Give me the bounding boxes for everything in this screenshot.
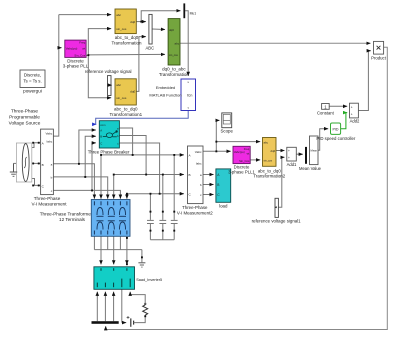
wire: Mux to Embedded MATLAB Function [185, 11, 188, 76]
svg-text:sin_cos: sin_cos [116, 27, 127, 31]
svg-text:Three-Phase: Three-Phase [11, 109, 38, 114]
ground G2 (transformer neutral) [138, 256, 145, 267]
resistor R (zigzag) [143, 305, 148, 315]
svg-text:Three-Phase Transformer: Three-Phase Transformer [40, 211, 93, 216]
block inverter (universal bridge) [94, 267, 162, 290]
svg-text:Programmable: Programmable [9, 115, 40, 120]
svg-text:Three Phase Breaker: Three Phase Breaker [88, 149, 130, 154]
block reference voltage signal source [85, 69, 132, 96]
node squares source wires [32, 142, 40, 187]
block Three Phase Breaker [88, 121, 130, 155]
wire: Vabc measurement net to PLL and abc_to_dq0 [53, 15, 111, 137]
Mux block (top) [183, 3, 196, 18]
wire: V-I Measurement2 Vabc to PLL1, Transformation2, Scope [203, 120, 260, 151]
svg-text:A: A [100, 128, 102, 132]
wire: reference voltage signal1 to Add1 [278, 157, 284, 207]
wire: transformer outputs to inverter [101, 236, 127, 264]
wire: fcn output to breaker com (blue) [96, 111, 189, 125]
svg-text:Discrete,: Discrete, [24, 73, 41, 78]
wire: V-I Measurement2 b to load B [203, 184, 214, 186]
svg-text:Three-Phase: Three-Phase [182, 205, 208, 210]
svg-text:+: + [288, 149, 290, 153]
block Three-Phase V-I Measurement2 [177, 146, 213, 215]
junction node dq0 [140, 21, 142, 23]
wire: net C (breaker c to V-I Measurement2 C and transformer port6) [119, 143, 183, 199]
wire: PID to Add2 (green) [341, 113, 348, 129]
svg-text:12 Terminals: 12 Terminals [59, 217, 86, 222]
svg-text:dq0: dq0 [169, 28, 174, 32]
svg-text:sin_cos: sin_cos [264, 160, 273, 163]
svg-text:Mean Value: Mean Value [299, 166, 322, 171]
wire: transformer secondary returns to ground [94, 236, 141, 262]
wire: source output B [32, 162, 40, 164]
svg-text:dq0: dq0 [271, 149, 276, 153]
source block (Three-Phase Programmable Voltage Source) [16, 143, 31, 182]
svg-text:abc: abc [116, 83, 121, 87]
wire: Sin_Cos net from PLL [86, 29, 165, 98]
svg-text:Iabc: Iabc [196, 162, 202, 166]
block Product [371, 41, 387, 60]
junction node Sin_Cos [87, 54, 89, 56]
wire: bus bar to inverter phase a [96, 292, 98, 322]
op block: Three-Phase V-I Measurement [32, 129, 68, 207]
wire: Add2 to Product [358, 51, 370, 111]
svg-text:wt: wt [247, 152, 250, 156]
svg-text:sin_cos: sin_cos [169, 53, 178, 57]
svg-text:PID: PID [333, 127, 339, 131]
svg-text:Freq: Freq [79, 41, 85, 45]
block ABC selector [145, 14, 154, 50]
op-amp: Discrete 3-phase PLL1 [228, 146, 255, 174]
svg-text:wt: wt [82, 46, 85, 50]
svg-text:Vabc(pu): Vabc(pu) [66, 46, 78, 50]
svg-text:com: com [100, 123, 106, 127]
block Constant [317, 104, 335, 116]
bus bar node [92, 321, 119, 324]
svg-text:+: + [288, 156, 290, 160]
capacitor Ca branch on net C [147, 194, 154, 240]
wire: net a (V-I Measurement a to breaker A and transformer port1) [53, 130, 96, 199]
wire: V-I Measurement2 a to load A [203, 174, 214, 176]
battery DC source [127, 316, 134, 327]
wire: bus bar to inverter phase c [113, 292, 115, 322]
wire: net b (V-I Measurement b to breaker B and transformer port3) [53, 136, 107, 199]
block Add2 [350, 103, 361, 124]
svg-text:Embedded: Embedded [156, 85, 175, 90]
svg-text:abc_to_dq0: abc_to_dq0 [114, 107, 138, 112]
svg-text:load: load [219, 204, 228, 209]
block load [216, 169, 231, 209]
svg-text:Iabc: Iabc [46, 140, 52, 144]
svg-text:Add1: Add1 [287, 162, 297, 167]
wire: dq0_to_abc abc long wire to Product [180, 42, 371, 44]
svg-text:Voltage Source: Voltage Source [9, 121, 41, 126]
wire: source output C [32, 179, 40, 186]
svg-text:Sin_Cos: Sin_Cos [239, 159, 250, 163]
wire: capacitor bottom rail [150, 239, 174, 241]
svg-text:MATLAB Function: MATLAB Function [149, 93, 181, 98]
ground G1 (source neutral) [10, 163, 17, 176]
svg-text:Product: Product [371, 55, 387, 60]
svg-text:reference voltage signal1: reference voltage signal1 [252, 218, 302, 223]
wire: ground1 to source [14, 162, 18, 164]
svg-text:+: + [351, 112, 353, 116]
svg-text:3-phase PLL1: 3-phase PLL1 [228, 169, 255, 174]
wire: inverter +dc to battery [122, 289, 126, 322]
svg-text:Sin_Cos: Sin_Cos [74, 53, 85, 57]
svg-text:a: a [200, 173, 202, 177]
svg-text:V-I Measurement2: V-I Measurement2 [177, 210, 213, 215]
block abc_to_dq0 Transformation [111, 9, 142, 45]
svg-text:B: B [42, 163, 44, 167]
svg-text:dq0: dq0 [130, 20, 135, 24]
block Add1 [287, 147, 297, 167]
block Embedded MATLAB Function [149, 79, 195, 111]
svg-text:Three-Phase: Three-Phase [34, 196, 61, 201]
block abc_to_dq0 Transformation1 [109, 79, 142, 117]
svg-text:abc: abc [175, 42, 180, 46]
svg-text:Transformation1: Transformation1 [109, 112, 142, 117]
block dq0_to_abc Transformation [159, 19, 190, 77]
svg-text:b: b [200, 183, 202, 187]
svg-text:ABC: ABC [145, 46, 154, 51]
wire: net c (V-I Measurement c to breaker C and transformer port5) [53, 143, 120, 199]
svg-text:B: B [100, 134, 102, 138]
svg-text:abc: abc [264, 140, 269, 144]
svg-text:Saad_Inverter5: Saad_Inverter5 [136, 278, 162, 282]
svg-text:Transformation: Transformation [159, 72, 190, 77]
svg-text:fcn: fcn [187, 93, 192, 98]
wire: Mean Value to PID [318, 129, 328, 151]
block Three-Phase Transformer 12 Terminals [40, 200, 130, 237]
powergui block [20, 70, 45, 94]
svg-text:Discrete: Discrete [67, 58, 84, 63]
wire: V-I Measurement2 c to load C [203, 194, 214, 196]
block Scope [220, 113, 233, 133]
wire: abc_to_dq0 Transformation1 dq0 up to ABC [136, 37, 146, 92]
wire: net A (breaker a to V-I Measurement2 A and transformer port2) [101, 128, 184, 199]
svg-text:Transformation2: Transformation2 [253, 173, 285, 178]
svg-text:Vabc: Vabc [195, 150, 202, 154]
op-amp: Discrete 3-phase PLL [63, 40, 89, 69]
svg-text:Add2: Add2 [350, 119, 360, 124]
wire: Constant to Add2 [329, 105, 347, 107]
svg-text:Ts = Ts s.: Ts = Ts s. [23, 79, 41, 84]
junction node Vabc/PLL [58, 47, 60, 49]
capacitor Cc branch on net A [171, 155, 178, 240]
wire: bus bar to inverter phase b [104, 292, 106, 322]
block Mean Value (with input mux bar) [299, 136, 322, 171]
block PID speed controller [316, 123, 355, 141]
svg-text:Vabc: Vabc [45, 132, 52, 136]
svg-text:a: a [51, 162, 53, 166]
svg-text:b: b [51, 176, 53, 180]
svg-text:dq0_to_abc: dq0_to_abc [162, 67, 186, 72]
wire: source output A [32, 143, 40, 148]
svg-text:abc: abc [116, 13, 121, 17]
svg-text:Transformation: Transformation [111, 40, 142, 45]
svg-text:+: + [351, 105, 353, 109]
block reference voltage signal1 source [252, 198, 302, 223]
svg-text:reference voltage signal: reference voltage signal [85, 69, 132, 74]
capacitor Cb branch on net B [159, 175, 166, 240]
wire: ABC out to dq0_to_abc [152, 28, 165, 31]
block abc_to_dq0 Transformation2 [253, 138, 285, 179]
svg-text:B: B [189, 173, 191, 177]
wire: Product output loop to bus bar [106, 47, 388, 329]
label Three-Phase Programmable Voltage Source [9, 109, 41, 126]
svg-text:Constant: Constant [317, 110, 335, 115]
wire: PLL1 Sin_Cos to Transformation2 [250, 159, 260, 161]
svg-text:dq0: dq0 [130, 90, 135, 94]
svg-text:V-I Measurement: V-I Measurement [32, 202, 68, 207]
svg-text:abc_to_dq0: abc_to_dq0 [115, 35, 139, 40]
wire: Add1 to Mean Value [296, 153, 303, 155]
svg-text:Freq: Freq [244, 147, 250, 151]
wire: Transformation2 dq0 to Add1 [276, 150, 285, 152]
wire: abc_to_dq0 output dq0 to ABC mux and top Mux [136, 11, 180, 22]
wire: resistor back to inverter -dc [130, 292, 145, 305]
wire: net B (breaker b to V-I Measurement2 B and transformer port4) [114, 136, 184, 199]
svg-text:sin_cos: sin_cos [116, 96, 127, 100]
svg-text:Scope: Scope [220, 128, 233, 133]
svg-text:Mu1: Mu1 [190, 12, 197, 16]
svg-text:C: C [100, 141, 102, 145]
svg-text:Mean: Mean [311, 149, 318, 153]
wire: battery to resistor [134, 315, 146, 322]
svg-text:powergui: powergui [23, 89, 42, 94]
svg-text:PID speed controller: PID speed controller [316, 136, 355, 141]
